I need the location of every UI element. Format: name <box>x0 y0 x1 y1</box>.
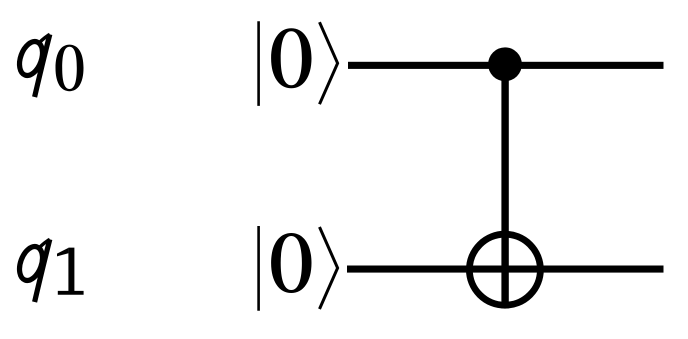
ket |0> for q1 <box>259 226 338 311</box>
wire q1 <box>347 266 664 273</box>
CNOT control dot <box>488 47 522 81</box>
qubit label q0 <box>15 34 83 97</box>
CNOT control-target vertical wire <box>501 64 508 308</box>
qubit label q1 <box>15 239 83 302</box>
CNOT target circle <box>469 234 540 305</box>
ket |0> for q0 <box>259 21 338 106</box>
wire q0 <box>348 62 664 69</box>
